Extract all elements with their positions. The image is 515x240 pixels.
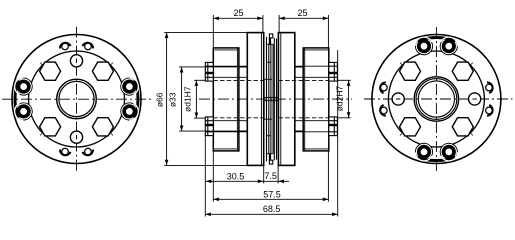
left screws	[205, 62, 213, 135]
vertical centerline	[76, 27, 78, 173]
right flange	[278, 33, 294, 166]
right collar	[303, 48, 329, 151]
dia 66	[164, 31, 247, 33]
dia 33	[179, 66, 239, 68]
pack short horizontals	[267, 44, 273, 153]
screw hole lines	[213, 66, 247, 132]
svg-text:ød1H7: ød1H7	[182, 86, 192, 112]
left neck	[239, 66, 247, 68]
horizontal centerline	[364, 98, 513, 100]
30.5 / 7.5	[263, 166, 265, 184]
pack spacer end lines	[264, 79, 272, 119]
view body rotated 90	[372, 35, 501, 164]
hex bolts	[40, 62, 114, 136]
68.5	[204, 136, 206, 217]
horizontal centerline	[2, 98, 152, 100]
left flange	[247, 33, 263, 166]
disc pack verticals	[267, 37, 277, 161]
dia d1H7	[194, 79, 205, 81]
bore circles (3 rings)	[414, 77, 458, 121]
main axis centerline	[199, 98, 352, 100]
svg-text:7.5: 7.5	[264, 171, 277, 181]
hex bolts	[400, 62, 474, 136]
svg-text:25: 25	[233, 8, 243, 18]
57.5	[212, 151, 214, 202]
bore circles	[57, 79, 97, 119]
vertical centerline	[435, 27, 437, 172]
svg-text:68.5: 68.5	[263, 204, 281, 214]
svg-text:ø33: ø33	[168, 92, 178, 107]
svg-text:57.5: 57.5	[263, 190, 281, 200]
svg-text:ø66: ø66	[154, 92, 164, 107]
pack center lines	[264, 96, 279, 98]
pack bolt heads	[269, 34, 273, 164]
dia d2H7	[337, 79, 351, 81]
svg-text:25: 25	[297, 8, 307, 18]
pack center spline cluster	[264, 80, 278, 120]
left collar	[213, 48, 239, 151]
view body	[12, 35, 141, 164]
top 25 right	[278, 15, 280, 32]
bore hidden lines	[213, 80, 328, 117]
right screws	[329, 62, 338, 135]
svg-text:ød2H7: ød2H7	[334, 85, 344, 111]
right neck	[295, 66, 303, 68]
top 25 left	[212, 15, 214, 48]
svg-text:30.5: 30.5	[227, 171, 245, 181]
